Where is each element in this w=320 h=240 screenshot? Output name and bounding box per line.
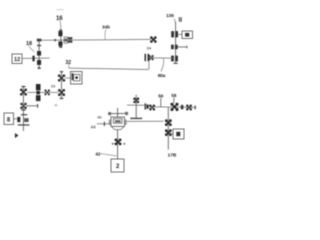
shaft S2 (vertical link at x=39) [38, 40, 40, 68]
stub wire right of gear GP2 [178, 46, 187, 48]
svg-text:17B: 17B [168, 153, 177, 159]
box 31 inner dot [75, 76, 78, 79]
arrow ticks near label 136 [179, 17, 180, 22]
box 30 inner glyph [185, 33, 189, 37]
shaft S5 (top-right vertical shaft) [175, 22, 177, 63]
shaft S3 bottom cap [60, 98, 64, 99]
box 31 left dark bar [72, 73, 74, 80]
bevel mark right of coupling C1 [24, 118, 28, 122]
svg-text:33: 33 [51, 84, 56, 89]
box 30b inner glyph [176, 132, 180, 136]
leader from label 42 to shaft S6 [100, 154, 116, 156]
box 8 [4, 113, 14, 125]
svg-text:56: 56 [158, 94, 164, 99]
shaft S8 (bottom-right vertical shaft) [167, 107, 169, 149]
gear G7 on shaft S4 upper [20, 89, 26, 95]
gear pair GP3 on shaft S5 [171, 56, 174, 62]
box 30 (top right) [182, 31, 193, 39]
gear G5 on shaft S3 lower [58, 89, 64, 95]
gear G2 right of pinion P1 [68, 37, 72, 42]
svg-text:8: 8 [7, 118, 11, 124]
wide crossbar on shaft S4 lower [18, 124, 30, 125]
wire row L12b (right part of bottom row) [149, 106, 196, 109]
gearbox 4 left ear [109, 120, 111, 125]
gear G15 on row [187, 105, 192, 110]
wire from box 8 to coupling [14, 118, 18, 120]
gear G11 top of shaft S7 [134, 98, 139, 103]
tick left of shaft S1 on line L1 [54, 39, 56, 41]
wire from gear GP1 to box 30 [178, 34, 182, 36]
gearbox 4 right ear [125, 120, 127, 125]
end tick of stub wire [186, 46, 189, 49]
coupling gear blob [146, 104, 148, 108]
faint mark near wire L7 end [55, 104, 58, 106]
drop wire from label 58 to gear G13 [173, 98, 175, 104]
wire from gear G17 to box 30b [171, 133, 173, 135]
gear on wire L4 right of clutch K2 [149, 55, 153, 60]
side tick right of gear G10 [123, 143, 125, 145]
svg-text:58: 58 [171, 93, 177, 98]
clutch K1 stack lower [36, 95, 41, 101]
svg-text:44: 44 [91, 125, 97, 130]
box 31 (pump unit) [71, 72, 83, 85]
svg-text:42: 42 [95, 151, 101, 156]
wire L3 from box 12 to shaft S2 [22, 57, 49, 59]
gear block G1b on shaft S1 [58, 41, 62, 46]
svg-text:32: 32 [66, 60, 72, 66]
svg-text:54: 54 [147, 46, 152, 51]
clutch K1 stack upper [36, 84, 41, 90]
gearbox 4 bottom V [111, 126, 124, 129]
svg-text:60a: 60a [158, 73, 166, 79]
end tick on row [195, 106, 196, 110]
gear G17 on shaft S8 lower [165, 130, 171, 136]
leader from label 18 to shaft S2 [29, 46, 35, 52]
S2 bottom cap [38, 67, 41, 69]
side tick left of gear G10 [112, 143, 114, 145]
wire row L12a (left part of bottom row) [127, 104, 145, 106]
arrow marker near shaft S4 bottom [15, 133, 19, 138]
T junction shaft S7 at x=135.5 [135, 95, 137, 118]
S2 upper cap [37, 45, 41, 46]
gear G12 on bottom row [150, 105, 155, 110]
gear block G3b on shaft S2 [37, 60, 41, 65]
svg-text:12: 12 [14, 57, 20, 63]
shaft S5 bottom cap [174, 63, 178, 64]
faint smudge above label 16 [56, 9, 64, 11]
gear pair GP1 on shaft S5 [171, 31, 174, 37]
box 12 [12, 54, 22, 64]
coupling blob C1 [17, 117, 20, 122]
gear pair GP2 on shaft S5 [171, 45, 174, 50]
leader curve to label 60a [161, 58, 164, 71]
box 31 inner frame [74, 74, 80, 81]
gear G13 (large dark gear on row) [171, 103, 178, 110]
T1 right end gear mark [125, 112, 128, 115]
leader from label 136 to shaft S5 [174, 19, 176, 24]
shaft S6 upper (above gearbox) [117, 108, 119, 117]
box 2 [111, 159, 124, 172]
wire L4 from clutch K2 to shaft S5 [149, 57, 173, 60]
small gear G14 on row [181, 105, 184, 109]
gearbox 4 inner band [115, 120, 121, 122]
shaft S1 top cap [59, 30, 62, 31]
end tick of wire L7 [37, 104, 38, 108]
pinion P1 hub [65, 39, 67, 42]
shaft S1 (top-left vertical shaft) [60, 29, 62, 48]
wire L1 (long top horizontal line) [39, 38, 151, 41]
svg-text:34b: 34b [102, 25, 110, 30]
wire L2 (second long horizontal line) [69, 68, 149, 69]
gear G4 on shaft S3 upper [58, 75, 65, 81]
leader from label 34b to line L1 [104, 29, 107, 39]
shaft S3 (vertical shaft at x=61.5) [61, 72, 63, 99]
svg-text:16: 16 [56, 16, 63, 22]
svg-text:4b: 4b [97, 114, 102, 119]
box 30b (bottom right) [173, 129, 184, 139]
pinion P1 right of shaft S1 [64, 37, 68, 43]
wire L11 from gearbox right [127, 120, 164, 122]
shaft S4 (left vertical shaft) [22, 87, 24, 132]
shaft S1 bottom cap [59, 46, 62, 47]
gearbox 4 inner box [114, 119, 123, 124]
crossbar on shaft S4 [21, 114, 28, 115]
crossbar bottom of shaft S7 [130, 118, 142, 119]
gear G8 on shaft S4 lower [21, 103, 27, 108]
wire: vertical link from L2 end up to clutch K2 [148, 61, 150, 70]
gear mark on S2 top junction [37, 39, 42, 42]
leader from label 16 to shaft S1 [60, 21, 61, 30]
small gear G6 on row L6 [45, 90, 50, 95]
gear block G3a on shaft S2 [37, 51, 41, 56]
coupling bar on bottom row [145, 103, 146, 109]
gear G10 on shaft S6 [115, 139, 121, 145]
gearbox input cross shaft T1 [108, 112, 129, 114]
wire from gear G4 to box 31 [65, 77, 71, 79]
T1 left end gear mark [108, 112, 111, 115]
shaft S6 lower (below gearbox) [117, 130, 119, 159]
clutch K1 hub [36, 91, 40, 94]
gear block G1a on shaft S1 [58, 31, 62, 36]
gear G16 on shaft S8 upper [165, 120, 171, 126]
wire L7 from gear G8 rightwards [26, 105, 36, 107]
clutch K2 bars (left of line L4) [145, 54, 147, 61]
shaft S3 top cap [60, 71, 63, 72]
svg-text:2: 2 [116, 164, 120, 170]
leader from label 32 to line L2 [68, 64, 70, 68]
drop wire from label 56 to row [160, 98, 162, 107]
gearbox 4 outer box [111, 117, 125, 126]
gear G9 (end of line L1) [151, 37, 157, 43]
wire L10 into gearbox left [97, 123, 111, 125]
tick on wire L10 [104, 122, 105, 126]
svg-text:136: 136 [166, 13, 174, 18]
shaft S4 top cap [21, 86, 25, 87]
tick on shaft S4 [21, 109, 26, 110]
coupling bar on wire L3 [32, 56, 34, 62]
wire L6 row at y=92.4 [28, 91, 59, 93]
